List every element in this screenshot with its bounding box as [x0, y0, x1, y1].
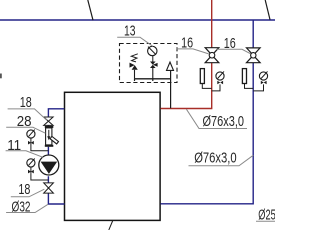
valve V18a ball valve top of pump loop [44, 117, 53, 125]
svg-text:Ø76x3,0: Ø76x3,0 [194, 150, 237, 167]
label diam 25 bottom right with leader [256, 207, 276, 224]
gauge M4 on red riser [212, 71, 224, 91]
valve V16b on blue riser [247, 48, 261, 63]
wire red supply riser [161, 0, 212, 109]
label 18 lower with leader [11, 181, 45, 198]
label diam 32 with leader [6, 198, 48, 215]
gauge M2 lower manometer with cock [27, 159, 49, 181]
gauge M5 on blue riser [253, 71, 267, 91]
wire leader tick top-right [265, 0, 270, 20]
gauge M3 manometer in safety group [148, 46, 157, 55]
three-way cock under gauge M3 [150, 56, 158, 79]
valve V16a on red riser [205, 48, 219, 63]
valve V18b ball valve bottom of pump loop [44, 183, 54, 193]
drain funnel in safety group [167, 62, 174, 70]
wire bus line in safety group [135, 78, 171, 80]
strainer F28 check valve body [45, 126, 59, 147]
label 18 upper with leader [8, 94, 47, 120]
boiler vessel rectangle [65, 92, 161, 220]
wire blue return riser [161, 20, 254, 204]
gauge M1 upper manometer with cock [27, 130, 49, 151]
label diam 76x3,0 upper with leader [186, 109, 247, 130]
svg-text:18: 18 [18, 181, 30, 198]
safety valve SV inside box [130, 54, 138, 79]
wire main supply top blue pipe [0, 19, 275, 21]
wire drain pipe from funnel to red pipe [170, 70, 172, 108]
wire leader at boiler bottom [109, 221, 113, 231]
svg-text:Ø76x3,0: Ø76x3,0 [203, 113, 245, 130]
label diam 76x3,0 lower with leader [189, 150, 254, 167]
node left-edge mark [0, 74, 2, 79]
wire pump loop blue pipe left [48, 109, 64, 204]
dashed box safety group 13 [120, 44, 178, 83]
label 16 first with leader [177, 35, 209, 54]
label 11 with leader [6, 137, 43, 158]
label 16 second with leader [216, 35, 250, 54]
label 28 with leader [6, 113, 45, 133]
thermometer T1 on red riser [200, 69, 211, 89]
pump P11 circulation pump [39, 155, 59, 175]
label 13 with leader [117, 22, 153, 46]
thermometer T2 on blue riser [242, 69, 253, 89]
wire leader tick top-left [88, 0, 93, 20]
